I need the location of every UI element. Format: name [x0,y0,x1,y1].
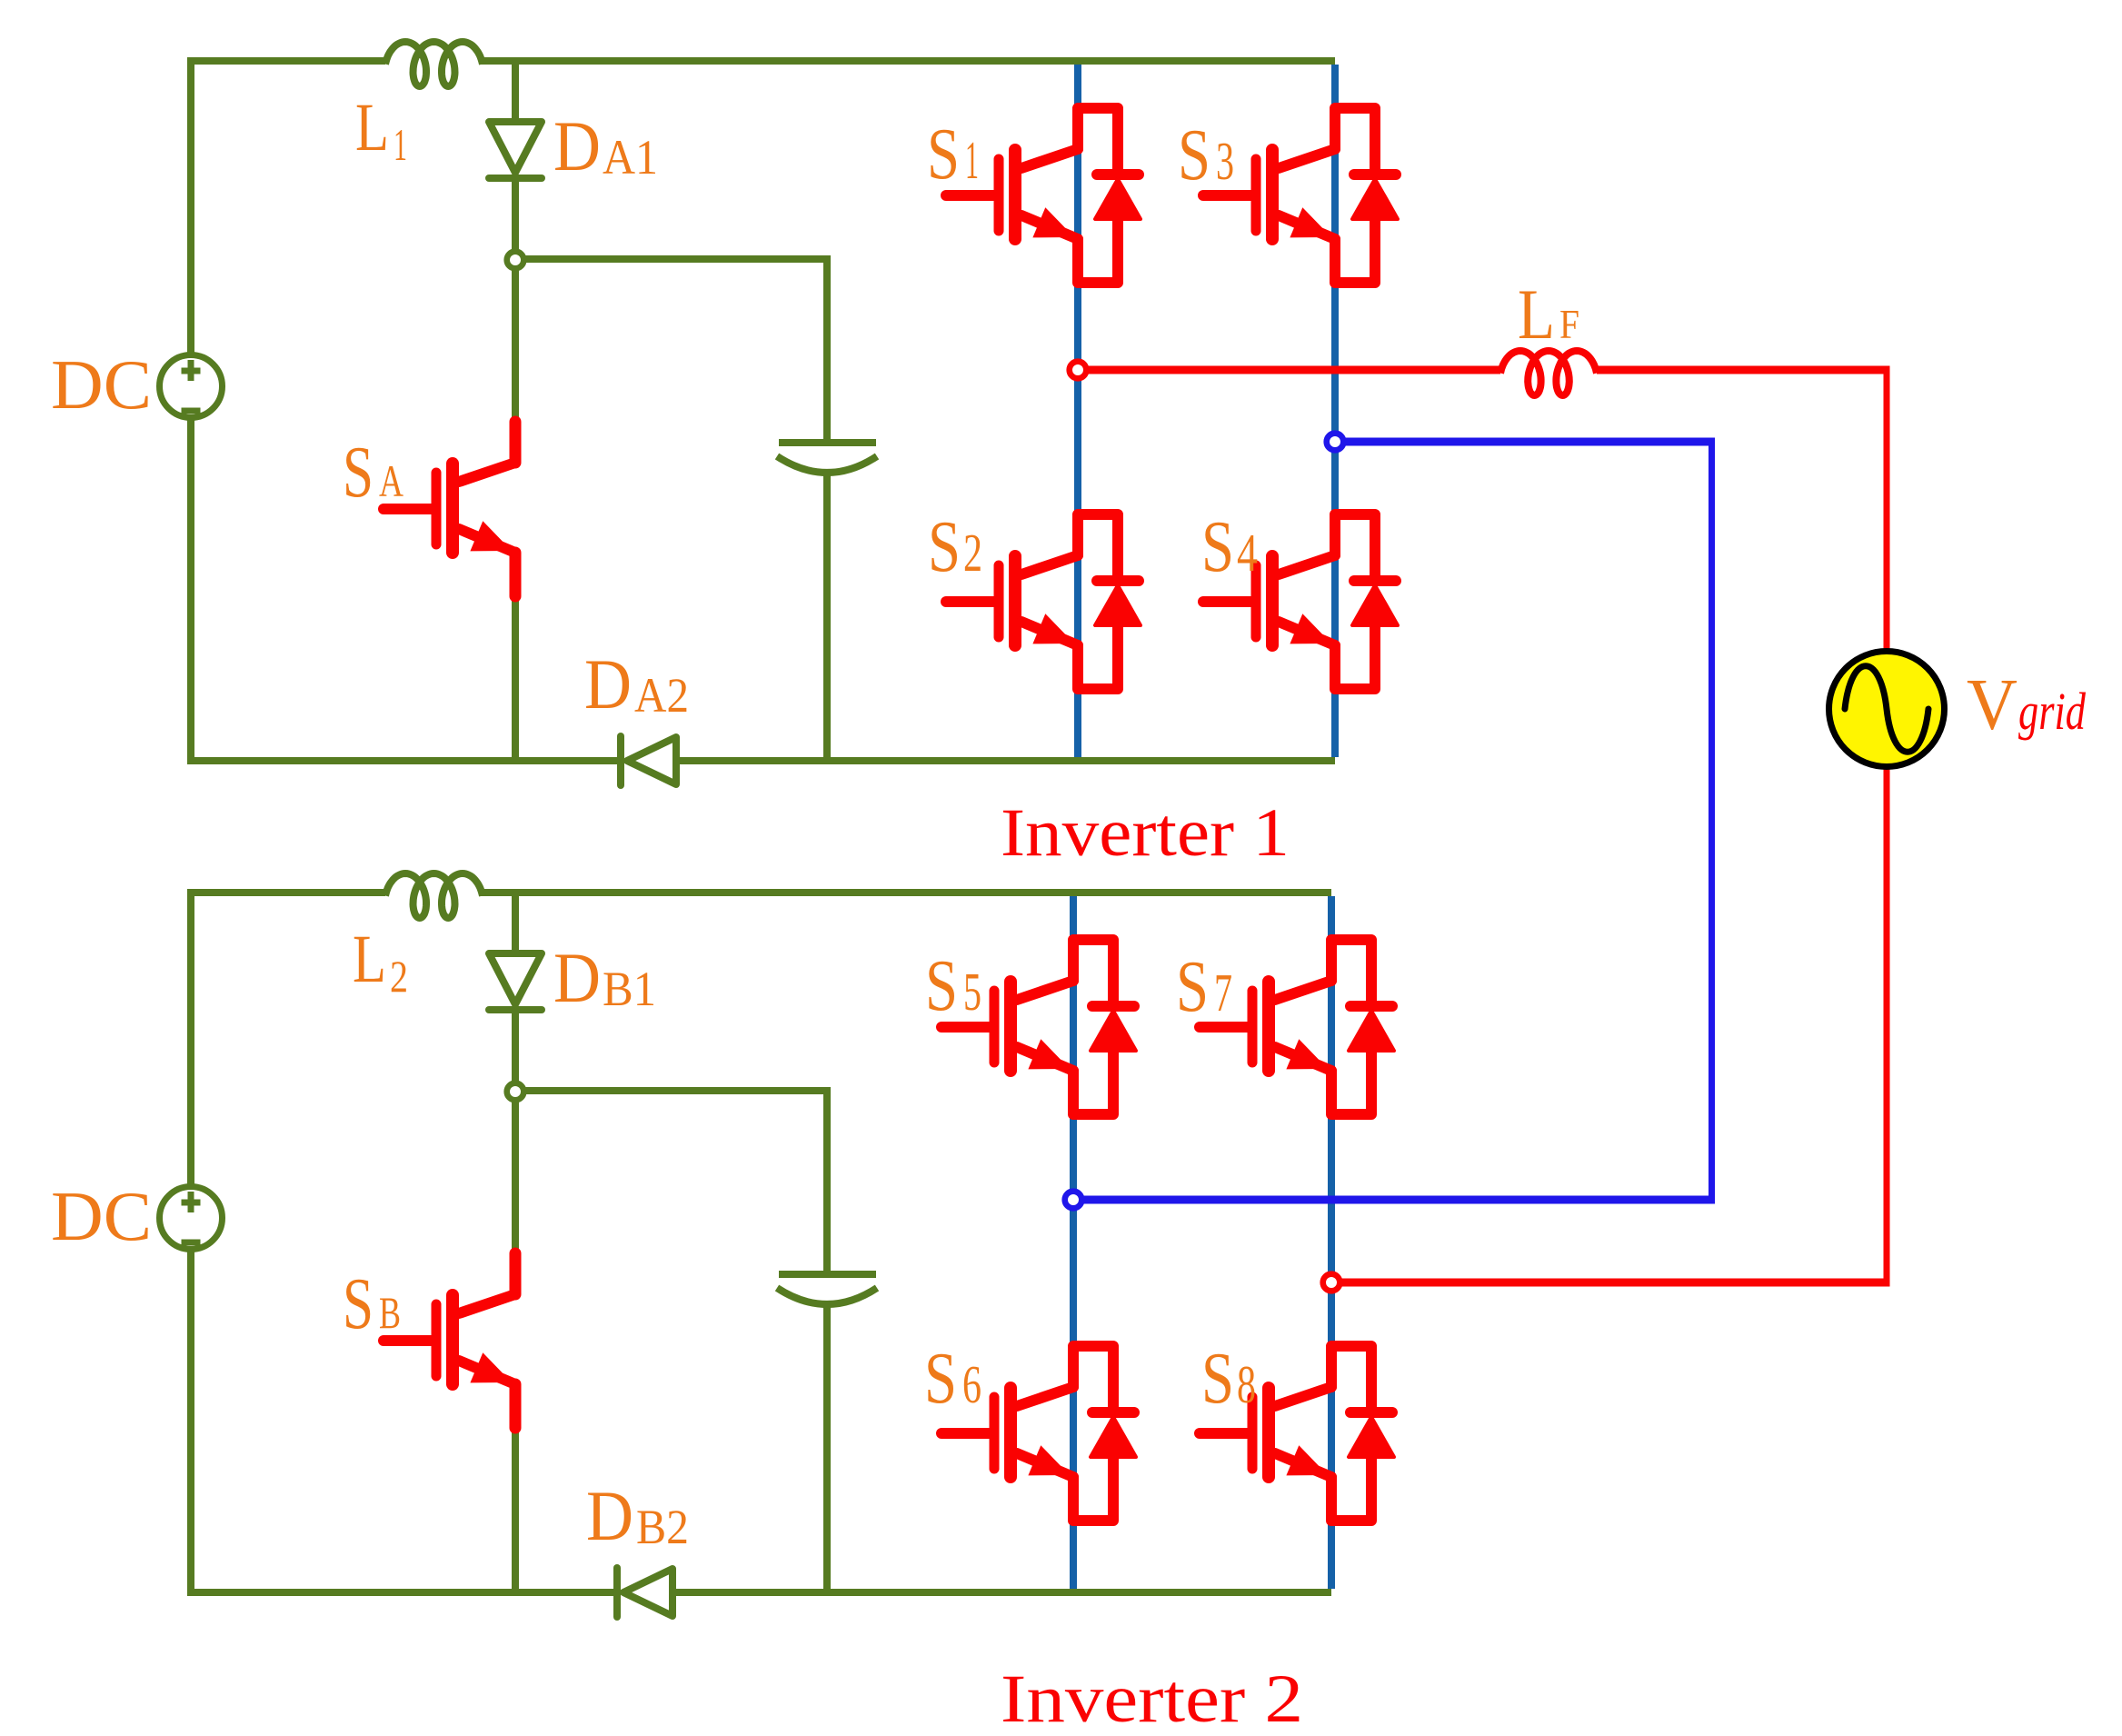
svg-text:D: D [553,938,601,1017]
transistor S1 (IGBT) [946,108,1141,283]
DC source 1 [160,355,223,418]
svg-text:DC: DC [51,345,152,424]
label DB2 [586,1476,689,1555]
wire bottom rail DB2 to inverter 2 [672,1589,1331,1596]
svg-text:DC: DC [51,1177,152,1255]
wire node B to SB collector [512,1091,519,1255]
svg-text:B1: B1 [603,962,656,1016]
diode DA2 [621,736,676,785]
svg-text:D: D [586,1476,633,1555]
svg-text:2: 2 [390,951,408,1002]
label DC (source 2) [51,1177,152,1255]
label S2 [928,507,982,587]
label S8 [1201,1339,1256,1419]
label Vgrid [1967,663,2087,745]
wire inverter 2 leg 1 (blue) [1070,896,1077,1589]
transistor S4 (IGBT) [1203,514,1398,689]
wire LF to Vgrid [1597,370,1890,650]
AC source Vgrid [1829,652,1945,767]
svg-text:S: S [927,115,960,195]
label S7 [1176,947,1232,1027]
label SB [343,1264,401,1344]
label DA2 [584,644,689,723]
svg-text:S: S [925,946,958,1026]
svg-text:L: L [355,90,389,165]
label L1 [355,90,407,170]
svg-text:D: D [584,644,632,723]
wire inverter 1 leg 2 (blue) [1331,65,1339,757]
wire SB emitter to bottom rail [512,1422,519,1592]
svg-text:D: D [553,106,601,185]
wire DC source 1 positive to top rail [191,61,385,355]
label S3 [1178,115,1234,195]
svg-text:1: 1 [965,130,979,190]
transistor S6 (IGBT) [941,1346,1136,1521]
diode DB1 [489,889,542,1094]
wire capacitor C2 to bottom rail [823,1303,831,1592]
inductor L2 [385,873,483,918]
svg-text:F: F [1559,302,1579,347]
wire node A to SA collector [512,259,519,424]
wire Vgrid to inverter 2 output (red) [1331,768,1890,1282]
wire bottom rail DA2 to inverter 1 [676,757,1335,764]
svg-text:S: S [1178,115,1210,195]
transistor S5 (IGBT) [941,940,1136,1114]
svg-text:S: S [924,1339,957,1419]
transistor SA (IGBT) [384,422,515,596]
label S1 [927,115,979,195]
label DC (source 1) [51,345,152,424]
svg-text:S: S [1201,1339,1234,1419]
svg-text:L: L [353,922,386,997]
label LF [1518,274,1579,354]
wire inverter 2 leg 2 (blue) [1328,896,1335,1589]
svg-text:4: 4 [1237,523,1258,583]
transistor S3 (IGBT) [1203,108,1398,283]
svg-text:Inverter 1: Inverter 1 [1001,795,1290,871]
svg-text:B: B [379,1287,401,1338]
transistor S7 (IGBT) [1200,940,1394,1114]
svg-text:A: A [379,455,403,506]
svg-text:A2: A2 [634,668,689,723]
svg-text:7: 7 [1214,963,1232,1023]
wire DC source 2 negative to bottom rail [191,1249,617,1592]
node A (boost A) [507,252,524,269]
svg-text:6: 6 [962,1354,981,1414]
svg-text:S: S [343,1264,374,1344]
wire top rail of boost A / inverter 1 [481,57,1335,65]
wire DC source 2 positive to top rail [191,893,385,1187]
svg-text:S: S [1201,507,1234,587]
wire SA emitter to bottom rail [512,591,519,761]
inductor LF [1500,351,1597,395]
svg-text:grid: grid [2018,682,2087,741]
wire top rail of boost B / inverter 2 [481,889,1331,896]
node inverter 1 output b (blue) [1327,434,1344,451]
wire inverter 1 leg 1 (blue) [1074,65,1081,757]
wire inverter 1 output b to inverter 2 (blue) [1073,438,1715,1204]
wire capacitor C1 to bottom rail [823,472,831,761]
svg-text:2: 2 [963,523,982,583]
svg-text:V: V [1967,663,2017,745]
svg-text:8: 8 [1237,1354,1256,1414]
transistor SB (IGBT) [384,1253,515,1428]
label L2 [353,922,408,1002]
node inverter 2 output b (red) [1323,1274,1340,1292]
svg-text:L: L [1518,274,1555,354]
wire inverter 1 output a (red) to LF [1078,366,1500,374]
diode DB2 [617,1568,672,1617]
transistor S8 (IGBT) [1200,1346,1394,1521]
capacitor C1 [777,443,877,473]
capacitor C2 [777,1274,877,1304]
svg-text:Inverter 2: Inverter 2 [1001,1661,1303,1736]
svg-text:5: 5 [963,962,981,1022]
node inverter 1 output a (red) [1070,362,1087,379]
svg-text:3: 3 [1216,131,1234,191]
label DB1 [553,938,656,1017]
label Inverter 1 [1001,795,1290,871]
svg-text:S: S [928,507,961,587]
label S5 [925,946,981,1026]
transistor S2 (IGBT) [946,514,1141,689]
label Inverter 2 [1001,1661,1303,1736]
svg-text:S: S [1176,947,1209,1027]
diode DA1 [489,57,542,263]
wire node A to capacitor C1 [515,259,827,440]
svg-text:A1: A1 [603,130,658,185]
label DA1 [553,106,658,185]
node inverter 2 output a (blue) [1065,1192,1082,1209]
svg-text:S: S [343,433,374,513]
wire DC source 1 negative to bottom rail [191,417,621,761]
label SA [343,433,403,513]
DC source 2 [160,1187,223,1250]
svg-text:B2: B2 [636,1500,689,1554]
label S6 [924,1339,981,1419]
svg-text:1: 1 [394,119,407,170]
label S4 [1201,507,1258,587]
wire node B to capacitor C2 [515,1091,827,1272]
node B (boost B) [507,1083,524,1101]
inductor L1 [385,42,483,86]
